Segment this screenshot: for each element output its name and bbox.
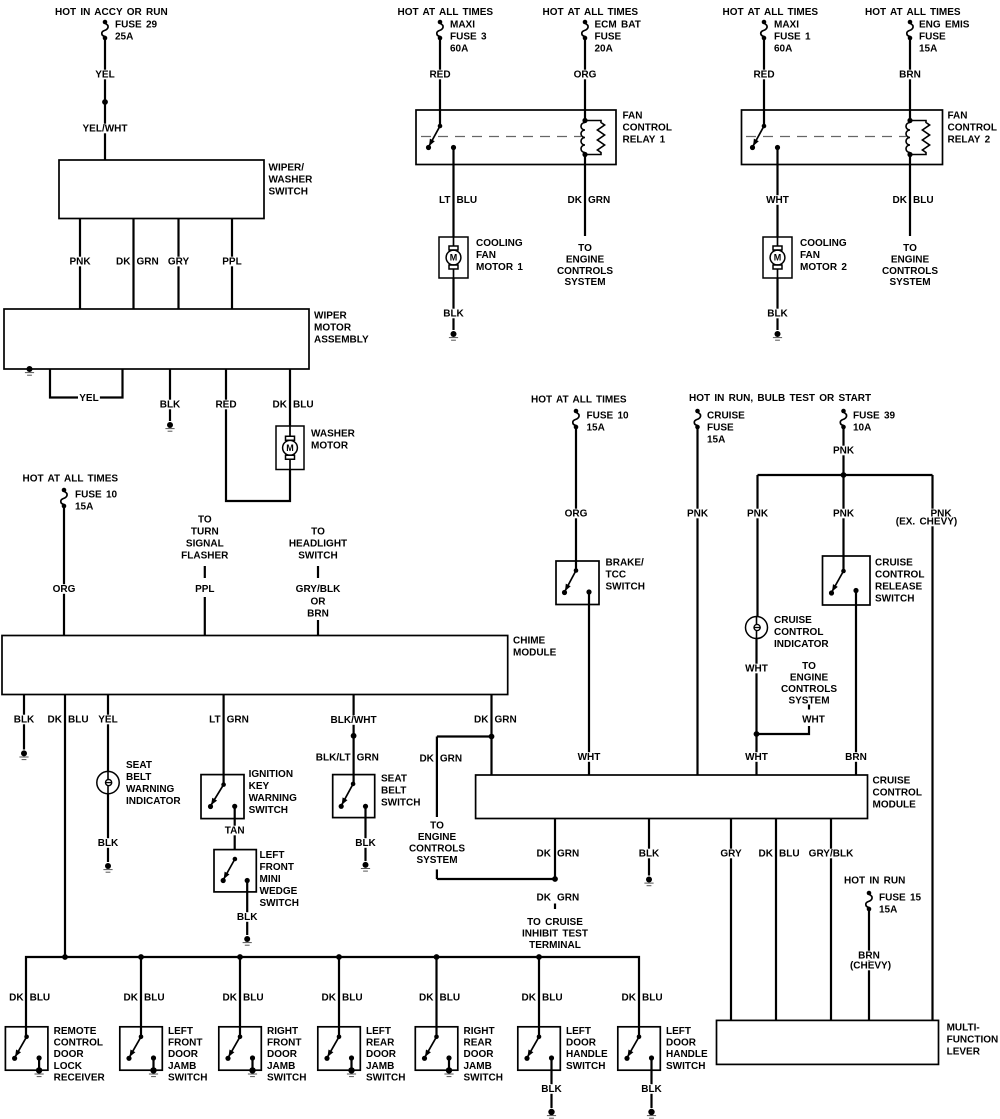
destination text TO TURN SIGNAL FLASHER	[181, 515, 229, 562]
svg-text:ECM BAT: ECM BAT	[595, 20, 641, 31]
relay 1 dashed actuation line	[421, 136, 581, 138]
svg-text:JAMB: JAMB	[267, 1061, 295, 1072]
svg-text:BLK: BLK	[14, 715, 35, 726]
svg-text:HOT AT ALL TIMES: HOT AT ALL TIMES	[723, 7, 819, 18]
power feed label HOT IN RUN, BULB TEST OR START	[689, 393, 871, 404]
svg-text:FUSE: FUSE	[707, 423, 734, 434]
svg-text:LT: LT	[439, 195, 450, 206]
right front door jamb switch	[219, 1026, 307, 1083]
cooling fan motor 2	[763, 237, 847, 278]
wire WHT engine controls system to indicator junction	[757, 705, 825, 735]
svg-text:MAXI: MAXI	[774, 20, 799, 31]
svg-text:BLU: BLU	[913, 195, 934, 206]
svg-text:BLU: BLU	[30, 993, 51, 1004]
svg-text:DK: DK	[322, 993, 337, 1004]
svg-text:BLK: BLK	[98, 838, 119, 849]
svg-text:WARNING: WARNING	[249, 793, 298, 804]
svg-text:TO CRUISE: TO CRUISE	[527, 917, 583, 928]
svg-text:BRN: BRN	[845, 752, 867, 763]
svg-text:60A: 60A	[774, 44, 792, 55]
svg-text:CONTROLS: CONTROLS	[882, 266, 938, 277]
svg-text:DK: DK	[419, 754, 434, 765]
svg-text:BELT: BELT	[381, 786, 406, 797]
brake/TCC switch	[556, 558, 645, 605]
svg-text:TCC: TCC	[606, 570, 627, 581]
svg-text:FRONT: FRONT	[168, 1038, 202, 1049]
svg-text:HOT IN RUN: HOT IN RUN	[844, 876, 905, 887]
label DK BLU for right rear door jamb switch	[419, 993, 460, 1004]
svg-text:BLU: BLU	[243, 993, 264, 1004]
label DK BLU for left door handle switch 1	[522, 993, 563, 1004]
svg-text:BLK: BLK	[639, 849, 660, 860]
svg-text:INDICATOR: INDICATOR	[126, 796, 181, 807]
left rear door jamb switch	[318, 1026, 406, 1083]
left front door jamb switch	[120, 1026, 208, 1083]
svg-text:DOOR: DOOR	[566, 1038, 597, 1049]
svg-text:SWITCH: SWITCH	[666, 1061, 705, 1072]
wire BLK chime module to ground	[13, 695, 36, 750]
svg-text:SIGNAL: SIGNAL	[186, 539, 224, 550]
svg-text:BELT: BELT	[126, 772, 151, 783]
svg-text:PPL: PPL	[195, 584, 214, 595]
svg-text:DOOR: DOOR	[267, 1049, 298, 1060]
svg-text:DOOR: DOOR	[666, 1038, 697, 1049]
svg-text:DK: DK	[48, 715, 63, 726]
svg-text:SWITCH: SWITCH	[249, 805, 288, 816]
svg-text:ENGINE: ENGINE	[566, 255, 605, 266]
seat belt switch	[333, 774, 421, 818]
wire DK BLU wiper motor assembly to washer motor	[273, 369, 314, 426]
wire BLK seat belt warning indicator to ground	[97, 794, 120, 862]
left door handle switch 1	[518, 1026, 608, 1072]
svg-text:BRAKE/: BRAKE/	[606, 558, 645, 569]
multi-function lever box	[717, 1020, 999, 1064]
svg-text:HOT AT ALL TIMES: HOT AT ALL TIMES	[398, 7, 494, 18]
svg-text:TO: TO	[802, 661, 816, 672]
svg-text:LEFT: LEFT	[260, 850, 285, 861]
svg-text:BLU: BLU	[144, 993, 165, 1004]
svg-text:BLU: BLU	[293, 400, 314, 411]
svg-text:BLK: BLK	[443, 309, 464, 320]
wire BLK left door handle switch 2 to ground	[640, 1058, 663, 1108]
svg-text:PNK: PNK	[833, 509, 855, 520]
svg-text:SWITCH: SWITCH	[366, 1072, 405, 1083]
fuse FUSE 39 10A	[840, 409, 895, 434]
power feed label HOT IN ACCY OR RUN	[55, 7, 168, 18]
label DK BLU for left door handle switch 2	[622, 993, 663, 1004]
svg-text:FUNCTION: FUNCTION	[947, 1035, 999, 1046]
wire RED maxi fuse 1 to fan control relay 2	[752, 40, 776, 126]
wire DK BLU bus to right rear door jamb switch	[435, 957, 437, 1037]
ground for mini wedge switch	[243, 936, 252, 945]
ground for seat belt warning indicator	[103, 863, 112, 872]
svg-text:DOOR: DOOR	[168, 1049, 199, 1060]
wire GRY cruise module to multi-function lever	[719, 819, 743, 1021]
svg-text:CONTROL: CONTROL	[54, 1038, 103, 1049]
fuse ENG EMIS FUSE 15A	[907, 20, 970, 55]
svg-text:LOCK: LOCK	[54, 1061, 83, 1072]
svg-text:GRN: GRN	[137, 257, 159, 268]
svg-text:BLK: BLK	[767, 309, 788, 320]
svg-text:GRN: GRN	[557, 893, 579, 904]
wire ORG fuse 10 to chime module	[51, 508, 76, 636]
wire PNK fuse 39 to distribution	[758, 429, 933, 571]
svg-text:HOT IN ACCY OR RUN: HOT IN ACCY OR RUN	[55, 7, 168, 18]
fan control relay 1 box	[416, 110, 672, 165]
ground for cooling fan motor 1	[449, 331, 458, 340]
svg-text:KEY: KEY	[249, 781, 270, 792]
wire DK BLU relay 2 to engine controls system	[893, 155, 934, 237]
svg-text:PNK: PNK	[687, 509, 709, 520]
svg-text:WHT: WHT	[802, 715, 825, 726]
svg-text:RIGHT: RIGHT	[267, 1026, 298, 1037]
fuse MAXI FUSE 3 60A	[437, 20, 487, 55]
svg-text:OR: OR	[311, 597, 327, 608]
svg-text:BLU: BLU	[342, 993, 363, 1004]
wire BLK cruise module to ground	[638, 819, 661, 876]
svg-text:BRN: BRN	[899, 70, 921, 81]
svg-text:ENG EMIS: ENG EMIS	[919, 20, 970, 31]
svg-text:DK: DK	[537, 893, 552, 904]
svg-text:PNK: PNK	[747, 509, 769, 520]
svg-text:SWITCH: SWITCH	[269, 187, 308, 198]
svg-text:DK: DK	[273, 400, 288, 411]
svg-text:MOTOR 2: MOTOR 2	[800, 262, 847, 273]
destination text TO ENGINE CONTROLS SYSTEM (relay 2)	[882, 243, 938, 288]
svg-text:DOOR: DOOR	[464, 1049, 495, 1060]
svg-text:BLU: BLU	[457, 195, 478, 206]
fuse FUSE 10 15A (brake)	[573, 409, 629, 434]
svg-text:WIPER/: WIPER/	[269, 163, 305, 174]
fuse CRUISE FUSE 15A	[694, 409, 745, 446]
svg-text:MODULE: MODULE	[513, 648, 557, 659]
remote control door lock receiver	[5, 1026, 105, 1083]
svg-text:PNK: PNK	[69, 257, 91, 268]
ignition key warning switch	[201, 769, 297, 819]
relay 2 coil with resistor	[906, 118, 930, 157]
svg-text:COOLING: COOLING	[476, 238, 523, 249]
cruise control indicator lamp	[746, 615, 830, 650]
ground for cruise module BLK	[644, 877, 653, 886]
svg-text:ENGINE: ENGINE	[418, 832, 457, 843]
wire ORG fuse 10 to brake/TCC switch	[563, 429, 588, 571]
svg-text:GRN: GRN	[557, 849, 579, 860]
destination text TO HEADLIGHT SWITCH	[289, 527, 347, 562]
svg-text:YEL: YEL	[95, 70, 114, 81]
svg-text:HOT AT ALL TIMES: HOT AT ALL TIMES	[543, 7, 639, 18]
svg-text:ORG: ORG	[565, 509, 588, 520]
wire PNK to cruise control indicator	[746, 475, 770, 616]
wire YEL loop under wiper motor assembly	[50, 369, 123, 404]
svg-text:FUSE 29: FUSE 29	[115, 20, 158, 31]
svg-text:TO: TO	[578, 243, 592, 254]
wire DK BLU bus to left rear door jamb switch	[338, 957, 340, 1037]
svg-text:WIPER: WIPER	[314, 311, 348, 322]
svg-text:BLK/WHT: BLK/WHT	[331, 715, 377, 726]
svg-text:TO: TO	[430, 821, 444, 832]
wire DK BLU bus for door switches	[26, 954, 639, 1037]
ground for chime BLK	[19, 750, 28, 759]
svg-text:CONTROLS: CONTROLS	[557, 266, 613, 277]
svg-text:BLK: BLK	[541, 1084, 562, 1095]
svg-text:SYSTEM: SYSTEM	[889, 277, 930, 288]
chime module box	[2, 636, 557, 695]
power feed label HOT IN RUN	[844, 876, 905, 887]
svg-text:IGNITION: IGNITION	[249, 769, 293, 780]
svg-text:M: M	[286, 443, 294, 453]
wire GRY/BLK or BRN headlight switch to chime module	[296, 566, 341, 636]
svg-text:DOOR: DOOR	[54, 1049, 85, 1060]
washer motor	[276, 426, 356, 470]
wire PNK wiper switch to wiper motor assembly	[68, 219, 92, 310]
svg-text:BLU: BLU	[440, 993, 461, 1004]
relay 1 switch	[426, 124, 456, 150]
wiper/washer switch box	[59, 160, 313, 219]
svg-text:SEAT: SEAT	[381, 774, 407, 785]
wire WHT cruise indicator to cruise control module	[744, 639, 769, 775]
wire BRN eng emis fuse to fan control relay 2 coil	[898, 40, 922, 121]
svg-text:JAMB: JAMB	[464, 1061, 492, 1072]
wire BRN cruise release switch to cruise control module	[844, 591, 868, 776]
svg-text:GRN: GRN	[357, 753, 379, 764]
wire PNK cruise fuse to cruise control module	[686, 429, 710, 775]
power feed label HOT AT ALL TIMES (fuse 10 chime)	[23, 474, 119, 485]
svg-text:HOT IN RUN, BULB TEST OR START: HOT IN RUN, BULB TEST OR START	[689, 393, 871, 404]
svg-text:TERMINAL: TERMINAL	[529, 940, 581, 951]
svg-text:YEL: YEL	[98, 715, 117, 726]
svg-text:15A: 15A	[75, 502, 93, 513]
svg-text:GRN: GRN	[588, 195, 610, 206]
ground for right rear door jamb switch	[444, 1058, 453, 1077]
fan control relay 2 box	[742, 110, 997, 165]
relay 2 dashed actuation line	[746, 136, 906, 138]
svg-text:FRONT: FRONT	[260, 862, 294, 873]
svg-text:DK: DK	[622, 993, 637, 1004]
relay 1 coil with resistor	[581, 118, 605, 157]
wire PPL wiper switch to wiper motor assembly	[221, 219, 243, 310]
svg-text:WHT: WHT	[578, 752, 601, 763]
svg-text:(CHEVY): (CHEVY)	[850, 961, 891, 972]
svg-text:CONTROL: CONTROL	[948, 123, 997, 134]
svg-text:GRY/BLK: GRY/BLK	[809, 849, 854, 860]
svg-text:ORG: ORG	[53, 584, 76, 595]
svg-text:WHT: WHT	[766, 195, 789, 206]
svg-text:DK: DK	[223, 993, 238, 1004]
svg-text:TO: TO	[311, 527, 325, 538]
svg-text:SWITCH: SWITCH	[606, 582, 645, 593]
svg-text:60A: 60A	[450, 44, 468, 55]
wire BLK cooling fan motor 1 to ground	[442, 278, 465, 330]
svg-text:FAN: FAN	[800, 250, 820, 261]
svg-text:HEADLIGHT: HEADLIGHT	[289, 539, 347, 550]
ground for left door handle switch 1	[547, 1109, 556, 1118]
svg-text:GRN: GRN	[495, 715, 517, 726]
wire DK GRN cruise module to cruise inhibit test terminal	[537, 819, 580, 910]
svg-text:FUSE: FUSE	[919, 32, 946, 43]
svg-text:FUSE 39: FUSE 39	[853, 411, 896, 422]
svg-text:LEFT: LEFT	[366, 1026, 391, 1037]
svg-text:GRY: GRY	[720, 849, 742, 860]
power feed label HOT AT ALL TIMES (ECM BAT fuse)	[543, 7, 639, 18]
wire LT GRN chime module to ignition key warning switch	[209, 695, 249, 785]
svg-text:LEFT: LEFT	[666, 1026, 691, 1037]
ground for left door handle switch 2	[647, 1109, 656, 1118]
svg-text:SWITCH: SWITCH	[260, 898, 299, 909]
svg-text:MOTOR 1: MOTOR 1	[476, 262, 523, 273]
ground for cooling fan motor 2	[773, 331, 782, 340]
wire DK BLU cruise module to multi-function lever	[759, 819, 800, 1021]
ground for left rear door jamb switch	[347, 1058, 356, 1077]
svg-text:BLK/LT: BLK/LT	[316, 753, 351, 764]
svg-text:TO: TO	[198, 515, 212, 526]
svg-text:15A: 15A	[707, 435, 725, 446]
svg-text:WHT: WHT	[745, 664, 768, 675]
svg-text:INHIBIT TEST: INHIBIT TEST	[522, 929, 588, 940]
wire DK BLU bus to right front door jamb switch	[239, 957, 241, 1037]
svg-text:BRN: BRN	[307, 609, 329, 620]
svg-text:CONTROL: CONTROL	[873, 788, 922, 799]
wire GRY wiper switch to wiper motor assembly	[167, 219, 191, 310]
svg-text:SWITCH: SWITCH	[168, 1072, 207, 1083]
wire TAN ignition key warning switch to mini wedge switch	[223, 806, 246, 849]
ground for right front door jamb switch	[248, 1058, 257, 1077]
svg-text:15A: 15A	[919, 44, 937, 55]
label DK BLU for left rear door jamb switch	[322, 993, 363, 1004]
power feed label HOT AT ALL TIMES (maxi fuse 1)	[723, 7, 819, 18]
fuse ECM BAT FUSE 20A	[582, 20, 641, 55]
wire ORG ECM BAT fuse to fan control relay 1 coil	[572, 40, 597, 121]
svg-text:COOLING: COOLING	[800, 238, 847, 249]
svg-text:SEAT: SEAT	[126, 760, 152, 771]
svg-text:TURN: TURN	[191, 527, 219, 538]
svg-text:RIGHT: RIGHT	[464, 1026, 495, 1037]
svg-text:INDICATOR: INDICATOR	[774, 639, 829, 650]
svg-text:CONTROL: CONTROL	[774, 627, 823, 638]
destination text TO CRUISE INHIBIT TEST TERMINAL	[522, 917, 588, 951]
destination text TO ENGINE CONTROLS SYSTEM (relay 1)	[557, 243, 613, 288]
svg-text:DK: DK	[474, 715, 489, 726]
svg-text:25A: 25A	[115, 32, 133, 43]
svg-text:SWITCH: SWITCH	[875, 594, 914, 605]
svg-text:CRUISE: CRUISE	[707, 411, 745, 422]
wire YEL chime module to seat belt warning indicator	[97, 695, 119, 772]
svg-text:BLU: BLU	[542, 993, 563, 1004]
svg-text:TAN: TAN	[225, 826, 245, 837]
svg-text:DOOR: DOOR	[366, 1049, 397, 1060]
svg-text:DK: DK	[9, 993, 24, 1004]
svg-text:FLASHER: FLASHER	[181, 551, 229, 562]
wire DK GRN relay 1 to engine controls system	[568, 155, 611, 237]
svg-text:RED: RED	[215, 400, 236, 411]
left door handle switch 2	[618, 1026, 708, 1072]
seat belt warning indicator lamp	[97, 760, 182, 807]
svg-text:MULTI-: MULTI-	[947, 1023, 980, 1034]
svg-text:ENGINE: ENGINE	[891, 255, 930, 266]
svg-text:DK: DK	[419, 993, 434, 1004]
wire PPL turn signal flasher to chime module	[195, 566, 214, 636]
svg-text:CONTROL: CONTROL	[875, 570, 924, 581]
wire DK BLU bus to left front door jamb switch	[140, 957, 142, 1037]
svg-text:MINI: MINI	[260, 874, 281, 885]
svg-text:SYSTEM: SYSTEM	[416, 855, 457, 866]
svg-text:WARNING: WARNING	[126, 784, 175, 795]
svg-text:SWITCH: SWITCH	[267, 1072, 306, 1083]
svg-text:HOT AT ALL TIMES: HOT AT ALL TIMES	[531, 395, 627, 406]
cruise control release switch	[823, 556, 925, 605]
wire WHT relay 2 to cooling fan motor 2	[765, 148, 790, 238]
label DK BLU for right front door jamb switch	[223, 993, 264, 1004]
wire WHT brake/TCC switch to cruise control module	[576, 592, 601, 775]
svg-text:RELAY 1: RELAY 1	[623, 135, 666, 146]
wire BLK cooling fan motor 2 to ground	[766, 278, 789, 330]
ground at wiper motor assembly	[25, 366, 34, 375]
svg-text:FUSE 15: FUSE 15	[879, 893, 922, 904]
svg-text:DK: DK	[537, 849, 552, 860]
svg-text:DK: DK	[124, 993, 139, 1004]
ground for remote control door lock receiver	[35, 1058, 44, 1077]
svg-text:RELAY 2: RELAY 2	[948, 135, 991, 146]
wire PNK (EX. CHEVY) to multi-function lever	[895, 475, 958, 1020]
svg-text:LEVER: LEVER	[947, 1047, 981, 1058]
svg-text:FUSE: FUSE	[595, 32, 622, 43]
wire BLK left door handle switch 1 to ground	[540, 1058, 563, 1108]
wiper motor assembly box	[4, 309, 369, 369]
svg-text:BLK: BLK	[641, 1084, 662, 1095]
svg-text:CONTROLS: CONTROLS	[781, 684, 837, 695]
svg-text:BLK: BLK	[160, 400, 181, 411]
power feed label HOT AT ALL TIMES (fuse 10 brake)	[531, 395, 627, 406]
ground for left front door jamb switch	[149, 1058, 158, 1077]
fuse FUSE 15 15A	[866, 891, 922, 916]
ground for wiper motor BLK	[165, 422, 174, 431]
fuse FUSE 10 15A (chime)	[61, 488, 118, 513]
svg-text:M: M	[774, 253, 782, 263]
wire YEL / YEL-WHT from fuse 29 to wiper/washer switch	[81, 40, 128, 160]
wire from engine controls system text to cruise inhibit junction	[437, 869, 555, 879]
svg-text:WASHER: WASHER	[269, 175, 314, 186]
svg-text:CONTROLS: CONTROLS	[409, 844, 465, 855]
svg-text:LEFT: LEFT	[566, 1026, 591, 1037]
svg-text:WASHER: WASHER	[311, 429, 356, 440]
svg-text:PNK: PNK	[833, 446, 855, 457]
svg-text:CRUISE: CRUISE	[875, 558, 913, 569]
svg-text:SWITCH: SWITCH	[464, 1072, 503, 1083]
wire BRN (CHEVY) fuse 15 to multi-function lever	[849, 911, 893, 1020]
svg-text:FUSE 10: FUSE 10	[587, 411, 630, 422]
wire BLK wiper motor assembly to ground	[159, 369, 182, 421]
cooling fan motor 1	[439, 237, 523, 278]
wire RED maxi fuse 3 to fan control relay 1	[428, 40, 452, 126]
right rear door jamb switch	[415, 1026, 503, 1083]
svg-text:ORG: ORG	[574, 70, 597, 81]
svg-text:CRUISE: CRUISE	[774, 615, 812, 626]
fuse FUSE 29 25A	[102, 20, 158, 43]
svg-text:MODULE: MODULE	[873, 800, 917, 811]
svg-text:RED: RED	[429, 70, 450, 81]
svg-text:(EX. CHEVY): (EX. CHEVY)	[896, 517, 958, 528]
svg-text:15A: 15A	[587, 423, 605, 434]
cruise control module box	[476, 775, 922, 819]
svg-text:RECEIVER: RECEIVER	[54, 1072, 106, 1083]
svg-text:FUSE 1: FUSE 1	[774, 32, 811, 43]
svg-text:10A: 10A	[853, 423, 871, 434]
svg-text:SWITCH: SWITCH	[381, 798, 420, 809]
svg-text:FUSE 3: FUSE 3	[450, 32, 487, 43]
svg-text:DK: DK	[116, 257, 131, 268]
svg-text:TO: TO	[903, 243, 917, 254]
svg-text:FAN: FAN	[623, 111, 643, 122]
svg-text:ASSEMBLY: ASSEMBLY	[314, 335, 369, 346]
